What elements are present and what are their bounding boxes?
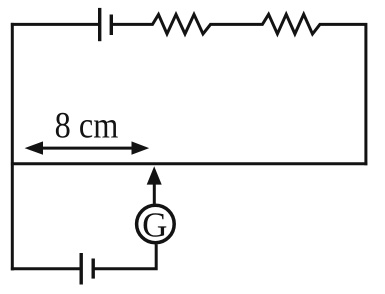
svg-text:8 cm: 8 cm — [55, 106, 119, 146]
svg-text:G: G — [142, 206, 167, 245]
